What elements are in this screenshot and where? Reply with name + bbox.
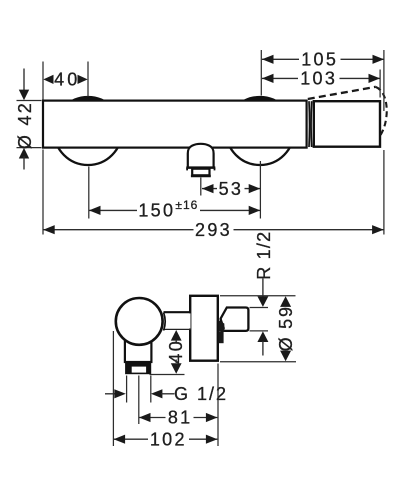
svg-text:±16: ±16 (175, 198, 198, 212)
svg-text:G 1/2: G 1/2 (174, 384, 228, 404)
svg-text:103: 103 (300, 69, 337, 89)
ext line 53/150 right (259, 161, 261, 219)
mixer body (43, 101, 307, 148)
joint ring line 2 (310, 101, 313, 147)
dimension 150 line (89, 209, 260, 211)
dim 40 (bottom view) arrow up (171, 330, 182, 341)
dimension 81 arrows (139, 413, 151, 422)
ext line 81/102 right (217, 364, 219, 447)
escutcheon top bump left (filled) (73, 97, 102, 100)
dimension 150 label (137, 198, 200, 218)
dia42 shaft bottom (23, 156, 25, 170)
tube top edge (164, 311, 192, 313)
R1/2 ext top (250, 307, 269, 309)
dimension 105 arrows (262, 55, 274, 64)
R1/2 arrow down (257, 296, 268, 307)
ext line 103 right (379, 70, 381, 98)
dimension 105 label (299, 52, 341, 67)
svg-text:150: 150 (138, 201, 175, 221)
ext line right outer lower (383, 150, 385, 235)
dimension 40 arrow left (43, 75, 53, 84)
G1/2 arrow left-pointing (151, 389, 163, 398)
G1/2 shaft left (105, 393, 116, 395)
escutcheon disc (edge-on) (190, 296, 218, 361)
tube bottom edge (164, 328, 192, 330)
ext line 40 right (87, 62, 89, 97)
ext line nut bottom (150, 374, 185, 376)
svg-text:102: 102 (150, 429, 187, 449)
outlet nut (192, 169, 209, 176)
G1/2 arrow right-pointing (114, 389, 126, 398)
joint ring line 1 (308, 101, 311, 147)
dimension 102 arrows (114, 435, 126, 444)
svg-text:R 1/2: R 1/2 (254, 231, 274, 280)
S-connector inner diagonal (221, 319, 224, 329)
G1/2 shaft right (161, 393, 174, 395)
dimension 40 arrow right (78, 75, 88, 84)
dashed raised-lever end arc (376, 87, 387, 136)
S-connector body (221, 308, 249, 331)
svg-text:Ø 42: Ø 42 (15, 101, 35, 149)
dia59 arrow down (280, 351, 291, 362)
dia59 ext top (220, 295, 296, 297)
ext line 40 left (42, 62, 44, 100)
svg-text:40: 40 (54, 70, 80, 90)
hose nut block (125, 362, 151, 374)
R1/2 ext bottom (250, 330, 269, 332)
ext line 81 centre (138, 376, 140, 425)
S-connector lower stub (219, 332, 224, 343)
dimension 293 arrows (43, 225, 55, 234)
dim 40 shaft top (175, 340, 177, 344)
ext line right outer (105 & 293) upper (383, 50, 385, 111)
dia42 arrow bottom (19, 148, 29, 159)
dashed raised-lever line (308, 87, 376, 99)
ext line 293 left (42, 150, 44, 235)
dim 40 arrow down (171, 363, 182, 374)
ext line G1/2 right (150, 376, 152, 403)
dimension 105 line (262, 58, 384, 60)
dimension 103 line (262, 77, 380, 79)
R1/2 shaft top (262, 279, 264, 298)
ext line 102 left (112, 331, 114, 446)
outlet stub (below knob) (125, 340, 151, 362)
escutcheon right (circle behind body) (226, 97, 294, 165)
dia59 arrow up (280, 296, 291, 307)
outlet fitting step (186, 166, 215, 169)
dimension 103 arrows (262, 74, 274, 83)
ext line 150 left (escutcheon centre) (88, 167, 90, 219)
outlet fitting step stub right (214, 168, 216, 171)
R1/2 arrow up (257, 331, 268, 342)
escutcheon left (circle behind body) (54, 97, 122, 165)
dimension 293 line (43, 229, 383, 231)
ext line G1/2 left (126, 376, 128, 403)
knob collar arc (164, 313, 166, 331)
S-connector shade wedge (219, 321, 225, 332)
svg-text:105: 105 (301, 50, 338, 70)
dimension 102 line (114, 438, 218, 440)
R1/2 shaft bottom (262, 341, 264, 356)
svg-text:Ø 59: Ø 59 (276, 305, 296, 351)
ext line dia42 bottom (17, 147, 42, 149)
dimension 293 label (194, 223, 234, 238)
dimension 150 arrows (89, 206, 101, 215)
dimension 81 line (139, 417, 217, 419)
dia42 arrow top (19, 90, 29, 101)
ext line 105/103 left (260, 50, 262, 96)
escutcheon top bump right (filled) (245, 97, 274, 100)
dia59 ext bottom (220, 361, 296, 363)
ext line 53 left (fitting centre) (200, 178, 202, 196)
dimension 81 label (166, 410, 194, 425)
hose nut window (132, 367, 146, 373)
G1/2 label (175, 386, 227, 402)
dim 40 shaft bottom (175, 360, 177, 364)
outlet fitting dome (188, 144, 214, 167)
dimension 53 label (217, 181, 245, 196)
handle lever (314, 101, 380, 147)
ext line dia42 top (17, 100, 42, 102)
svg-text:81: 81 (168, 408, 193, 428)
svg-text:53: 53 (219, 179, 244, 199)
body tube (white over escutcheon) (164, 313, 191, 328)
dia42 shaft top (23, 69, 25, 93)
outlet fitting step stub left (186, 168, 188, 171)
dimension 53 line (202, 188, 260, 190)
lever knob circle (116, 298, 163, 345)
outlet nut bottom edge (191, 175, 211, 178)
dimension 53 arrows (202, 184, 214, 193)
svg-text:293: 293 (195, 220, 232, 240)
dimension 102 label (148, 432, 189, 447)
dimension 103 label (298, 71, 340, 86)
